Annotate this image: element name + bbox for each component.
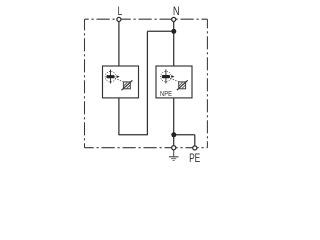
terminal PE circle [193, 146, 197, 150]
wire module 1 bottom down [118, 98, 120, 135]
device enclosure outline (dash-dot) [85, 19, 208, 148]
varistor / spark gap symbol module 2 [177, 80, 188, 90]
wire top horizontal to node N [147, 30, 173, 32]
wire junction to PE branch horizontal [174, 134, 195, 136]
svg-text:L: L [118, 6, 123, 19]
protection module 2 box (N-PE gap) [156, 66, 192, 98]
node N-PE junction dot [171, 132, 176, 137]
wire L down to protection module 1 [118, 22, 120, 66]
label L [118, 6, 123, 19]
terminal L circle [117, 17, 121, 21]
label PE [189, 153, 200, 166]
ground symbol [169, 150, 179, 161]
node N junction dot [171, 29, 176, 34]
varistor symbol module 1 [122, 80, 133, 90]
label N [173, 5, 180, 18]
wire bottom horizontal of L-N loop [118, 134, 147, 136]
protection module 1 box (L-N varistor path) [103, 66, 139, 98]
wire PE branch vertical [194, 135, 196, 146]
svg-text:NPE: NPE [160, 91, 172, 99]
svg-text:PE: PE [189, 153, 200, 164]
svg-text:N: N [173, 5, 180, 18]
thermal disconnector symbol module 1 [105, 70, 123, 84]
earth terminal circle [172, 146, 176, 150]
thermal disconnector symbol module 2 [161, 69, 179, 83]
wire N down to protection module 2 [173, 22, 175, 66]
terminal N circle [172, 17, 176, 21]
wire vertical return of L-N loop [146, 31, 148, 135]
wire module 2 bottom down to earth terminal [173, 98, 175, 146]
label NPE in module 2 [160, 91, 172, 99]
